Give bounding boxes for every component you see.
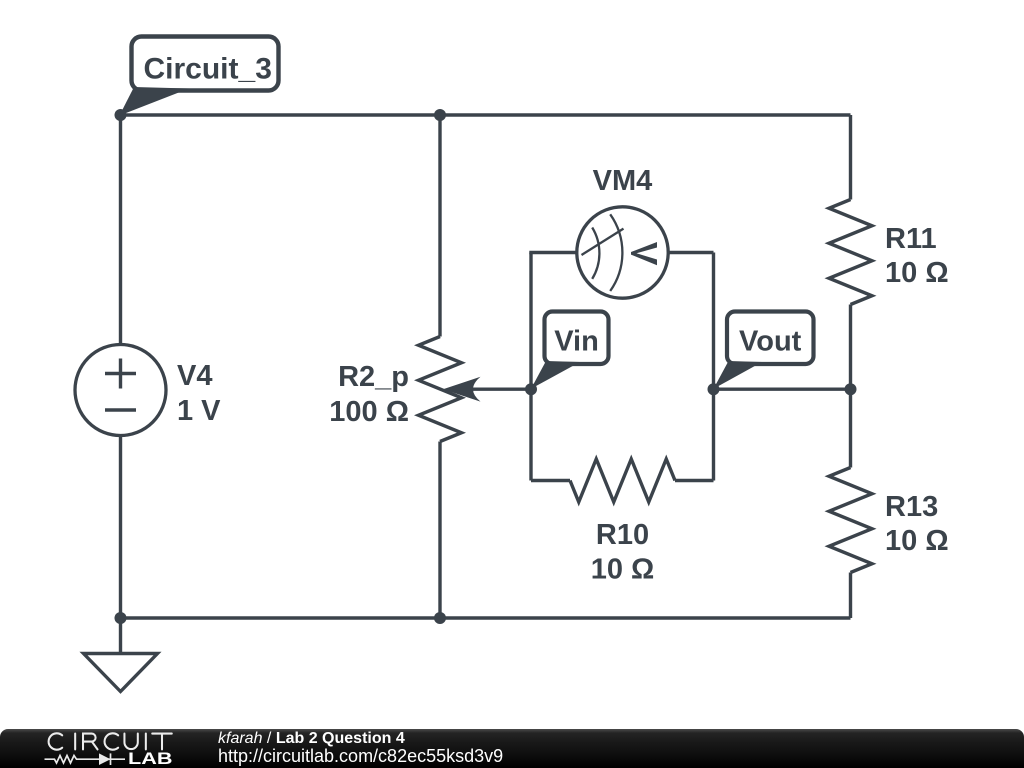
label R13 value xyxy=(885,491,949,557)
svg-text:VM4: VM4 xyxy=(593,165,653,197)
voltage source V4 xyxy=(75,345,166,436)
svg-text:Vin: Vin xyxy=(554,326,599,358)
wire Vin vertical xyxy=(529,253,532,481)
label VM4 xyxy=(593,165,653,197)
CircuitLab logo xyxy=(30,729,230,768)
wire voltmeter left lead xyxy=(529,251,578,254)
wire Vout vertical xyxy=(712,253,715,481)
node Vin xyxy=(525,383,537,395)
wire R10 left lead xyxy=(531,479,570,482)
node right junction xyxy=(845,383,857,395)
svg-text:100 Ω: 100 Ω xyxy=(329,396,409,428)
resistor R11 xyxy=(829,200,872,305)
label R10 value xyxy=(591,519,655,586)
net label Circuit_3 xyxy=(120,37,279,116)
wire R11 top lead xyxy=(849,115,852,200)
svg-text:Vout: Vout xyxy=(739,326,802,358)
svg-text:10 Ω: 10 Ω xyxy=(885,257,949,289)
wire ground stem xyxy=(119,618,122,654)
ground xyxy=(84,654,158,692)
wire R13 bottom lead xyxy=(849,573,852,619)
svg-text:R11: R11 xyxy=(885,223,937,255)
resistor R10 xyxy=(570,459,675,502)
node Vout xyxy=(708,383,720,395)
label R11 value xyxy=(885,223,949,289)
wire top rail xyxy=(120,113,851,116)
footer bar xyxy=(0,729,1024,768)
node bottom-left xyxy=(115,612,127,624)
wire voltmeter right lead xyxy=(667,251,714,254)
node top-left xyxy=(115,109,127,121)
footer text line 1 xyxy=(218,730,405,748)
wire left rail upper xyxy=(119,115,122,345)
svg-text:R13: R13 xyxy=(885,491,938,523)
node bottom-middle xyxy=(434,612,446,624)
wire middle rail upper xyxy=(438,115,441,337)
svg-text:1 V: 1 V xyxy=(177,395,221,427)
wire bottom rail xyxy=(120,616,851,619)
svg-text:R10: R10 xyxy=(596,519,649,551)
node top-middle xyxy=(434,109,446,121)
svg-text:10 Ω: 10 Ω xyxy=(885,525,949,557)
resistor R13 xyxy=(829,468,872,573)
svg-text:LAB: LAB xyxy=(128,749,173,768)
footer text line 2 xyxy=(218,746,503,767)
svg-text:Circuit_3: Circuit_3 xyxy=(144,53,272,86)
potentiometer R2_p xyxy=(419,337,481,442)
wire left rail lower xyxy=(119,436,122,619)
svg-text:10 Ω: 10 Ω xyxy=(591,554,655,586)
svg-text:R2_p: R2_p xyxy=(338,361,409,393)
wire Vout row xyxy=(714,388,851,391)
wire wiper to Vin node xyxy=(452,388,531,391)
wire R11 to R13 xyxy=(849,305,852,468)
svg-text:V4: V4 xyxy=(177,360,212,392)
label V4 value xyxy=(177,360,221,427)
voltmeter VM4 xyxy=(577,207,668,298)
wire R10 right lead xyxy=(675,479,714,482)
net flag Vout xyxy=(714,312,814,389)
net flag Vin xyxy=(531,312,609,389)
wire middle rail lower xyxy=(438,442,441,619)
label R2_p value xyxy=(329,361,409,428)
